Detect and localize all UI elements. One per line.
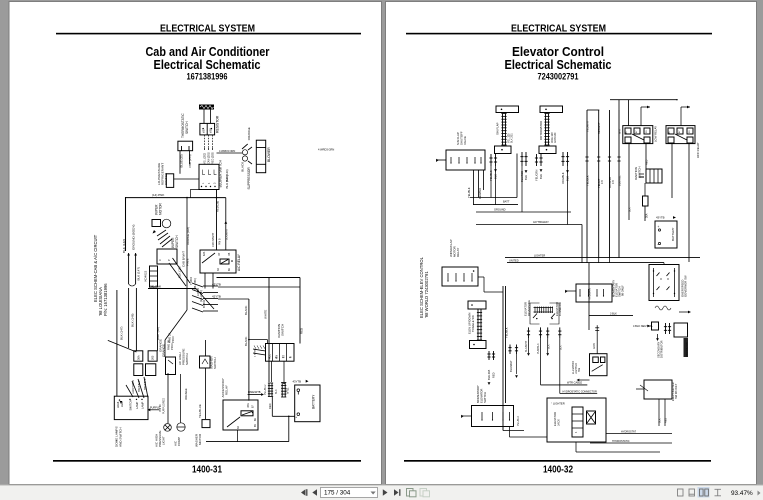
svg-text:BLK 201: BLK 201: [511, 133, 514, 143]
ground wire loop: [128, 253, 130, 284]
svg-text:PIN B: PIN B: [219, 238, 222, 245]
fuse component: [643, 196, 649, 206]
wires from momentary switch: [509, 427, 511, 438]
wire from speed box down: [575, 442, 577, 452]
wiper motor circle: [162, 219, 171, 228]
svg-text:RED: RED: [646, 160, 649, 165]
toolbar background: [0, 485, 763, 500]
wire horizontal united: [507, 262, 664, 264]
svg-text:BLACK: BLACK: [244, 305, 248, 315]
svg-text:LOW RELAY: LOW RELAY: [654, 126, 658, 142]
momentary elevator switch box left: [472, 406, 514, 427]
elevator switch 98 only component: [644, 380, 672, 399]
svg-text:RESISTOR: RESISTOR: [216, 115, 220, 133]
suppressor motor symbols: [242, 150, 247, 155]
svg-text:BLK: BLK: [547, 344, 550, 349]
ignition switch connector: [266, 344, 295, 362]
wiper switch box: [157, 249, 177, 264]
wire down from pressure switch: [167, 373, 169, 423]
svg-text:SW B/BLK: SW B/BLK: [138, 380, 141, 392]
svg-text:(3B) PNK: (3B) PNK: [149, 284, 161, 288]
battery box right: [655, 221, 677, 248]
svg-text:LAMP: LAMP: [141, 401, 145, 409]
wire from blower switch bottom left: [191, 190, 203, 198]
svg-text:SWITCH: SWITCH: [185, 353, 189, 365]
elevator lighter riser: [596, 325, 598, 354]
wire 42YTB to feed: [249, 298, 330, 300]
svg-text:MOTOR: MOTOR: [198, 433, 202, 445]
solenoid chain 1 connector bar: [502, 114, 504, 146]
svg-text:WHITE: WHITE: [264, 310, 268, 319]
chain 1 down arrow: [494, 169, 497, 172]
extra hydro wires: [547, 441, 576, 443]
svg-text:ORANGE (118): ORANGE (118): [186, 227, 190, 245]
svg-text:4 WRD3 ORN: 4 WRD3 ORN: [219, 149, 235, 153]
wire RED to battery: [271, 397, 273, 416]
ignition connector hatch wires: [253, 349, 266, 351]
svg-text:43YTB: 43YTB: [656, 216, 665, 220]
svg-text:YEL/BLK: YEL/BLK: [467, 187, 471, 198]
wire horizontal top right: [217, 277, 301, 279]
svg-text:LAMP B/BLK: LAMP B/BLK: [132, 380, 135, 394]
dome lamps box: [114, 396, 148, 419]
elevator lighter arrow: [579, 379, 590, 381]
resistor terminal box #37 #38: [200, 123, 215, 134]
svg-text:ORANGE: ORANGE: [247, 127, 251, 140]
svg-text:BATTERY: BATTERY: [312, 394, 316, 409]
svg-text:YEL/BLK: YEL/BLK: [517, 416, 520, 426]
wire junction diagonals: [196, 289, 214, 310]
bottom wires of left page: [288, 416, 290, 441]
left page sheet: [9, 2, 382, 485]
svg-text:YEL/GRN: YEL/GRN: [535, 169, 539, 181]
svg-text:BLK: BLK: [275, 389, 278, 394]
washer motor component: [202, 420, 210, 428]
svg-text:GROUND (BODY): GROUND (BODY): [132, 225, 136, 250]
svg-text:RED/WHT: RED/WHT: [598, 122, 601, 134]
toolbar right caret: [758, 491, 761, 496]
tall wire from chain area down: [516, 154, 518, 198]
elevator lighter switch box: [590, 354, 608, 376]
toolbar previous page button: [312, 489, 317, 496]
connector KD4022 box: [150, 266, 158, 287]
svg-text:43YTB: 43YTB: [293, 379, 302, 383]
svg-text:BATTERY: BATTERY: [671, 227, 675, 241]
left relay bracket: [530, 303, 540, 324]
relay drop wires: [628, 144, 630, 220]
svg-text:HYDROSTAT: HYDROSTAT: [621, 430, 637, 433]
svg-text:⌜ LIGHTER: ⌜ LIGHTER: [551, 402, 565, 406]
A/C relay box: [200, 250, 236, 273]
up arrow right relay: [681, 106, 690, 108]
svg-text:BLOWER: BLOWER: [267, 147, 271, 162]
wire horizontal 42YTB: [476, 224, 582, 226]
toolbar single page icon: [678, 489, 684, 496]
svg-text:ELEVATOR: ELEVATOR: [553, 412, 557, 426]
wire bus right mid: [588, 263, 590, 330]
svg-text:YEL/BLK: YEL/BLK: [505, 327, 509, 338]
toolbar fit page icon: [689, 489, 695, 496]
svg-text:BLK/YEL: BLK/YEL: [618, 175, 622, 186]
svg-text:PIN F: PIN F: [171, 336, 175, 343]
bus wires vertical: [586, 110, 588, 258]
svg-text:4 WRD3 GRN: 4 WRD3 GRN: [318, 147, 334, 151]
connector columns above battery wire: [268, 383, 270, 397]
svg-text:A/C RELAY: A/C RELAY: [237, 253, 241, 271]
svg-text:MOTOR: MOTOR: [159, 202, 163, 215]
secondary distributor box: [674, 323, 688, 337]
svg-text:98 ONLY: 98 ONLY: [621, 285, 625, 296]
svg-text:1 GRAY: 1 GRAY: [254, 349, 257, 357]
svg-text:SW 98 ONLY: SW 98 ONLY: [674, 383, 678, 399]
harness connector cluster: [192, 283, 203, 287]
svg-text:LAMP: LAMP: [135, 401, 139, 409]
svg-text:SW B/BLK: SW B/BLK: [144, 378, 147, 390]
operator presence switch box: [576, 284, 612, 302]
svg-text:RED: RED: [268, 403, 272, 409]
toolbar last page button: [394, 489, 399, 496]
svg-text:SWITCH: SWITCH: [483, 392, 487, 403]
svg-text:PIN E: PIN E: [186, 258, 190, 266]
switch ground arrow left: [461, 415, 472, 417]
svg-text:RED: RED: [492, 372, 496, 378]
secondary connector ticks: [665, 323, 667, 334]
lighter element: [587, 411, 596, 424]
svg-text:WHT: WHT: [619, 128, 622, 134]
elevator toggle bottom box: [470, 341, 487, 349]
svg-text:1400-32: 1400-32: [543, 464, 573, 475]
chain drops to horizontals: [490, 166, 492, 198]
wire bottom run left page: [108, 340, 137, 352]
wiper motor arrow: [152, 230, 156, 234]
hydrostatic connector wire: [560, 393, 597, 395]
wires below resistor box: [204, 135, 206, 148]
svg-text:BLK (142): BLK (142): [122, 239, 126, 253]
wire horizontal ground: [476, 211, 571, 213]
A/C comp wire: [180, 374, 182, 423]
lamp resistor boxes: [134, 351, 143, 361]
accessory relay box: [223, 400, 258, 430]
svg-text:YEL/BLK: YEL/BLK: [586, 175, 590, 186]
svg-text:(14) PNK: (14) PNK: [152, 193, 164, 197]
svg-text:RESTRICTOR: RESTRICTOR: [686, 342, 688, 357]
right relay bracket: [550, 303, 560, 324]
svg-text:BLK 41B: BLK 41B: [487, 369, 491, 380]
svg-text:Electrical Schematic: Electrical Schematic: [505, 57, 612, 72]
toolbar first page button: [301, 489, 306, 496]
battery box: [295, 385, 320, 422]
wires below AC relay: [204, 273, 206, 289]
operator presence ground arrow: [565, 290, 576, 292]
lime/white arrow wire: [248, 394, 262, 396]
wire vertical main left: [125, 197, 127, 251]
svg-text:7243002791: 7243002791: [538, 71, 579, 81]
svg-text:SW: SW: [578, 367, 581, 372]
wire 43YTB run: [218, 286, 300, 288]
resistor block: [199, 105, 214, 110]
svg-text:BLK (146): BLK (146): [225, 169, 229, 182]
wire BLK/WHT riser to relay: [225, 198, 227, 250]
toolbar fit width icon: [715, 489, 722, 496]
wire horizontal lighter: [505, 257, 700, 259]
overspeed governor switch box: [649, 265, 679, 301]
svg-text:RED (283): RED (283): [212, 152, 215, 164]
svg-text:BLACK: BLACK: [241, 162, 245, 172]
bottom horizontal wires right page: [606, 433, 672, 435]
svg-text:1671381996: 1671381996: [187, 71, 228, 81]
right page sheet: [386, 2, 757, 485]
svg-text:SWITCH: SWITCH: [175, 235, 179, 248]
svg-text:SWITCH: SWITCH: [185, 121, 189, 134]
ignition switch connector right: [646, 169, 662, 183]
middle connector ticks: [509, 345, 511, 355]
relay drop wires with arrows: [528, 338, 530, 353]
svg-text:PUR/BLK: PUR/BLK: [537, 343, 540, 354]
A/C high pressure light lamp: [164, 424, 172, 432]
ignition battery symbol: [639, 173, 644, 175]
resistor leads: [203, 110, 205, 124]
wire RED 28 from blower switch to relay: [216, 190, 218, 251]
svg-text:Electrical Schematic: Electrical Schematic: [154, 57, 261, 72]
svg-text:GROUND: GROUND: [494, 208, 506, 212]
dome ground arrow: [120, 401, 123, 404]
right header underline: [406, 33, 712, 35]
svg-text:JACK: JACK: [557, 419, 561, 426]
svg-text:IGN: IGN: [276, 354, 279, 359]
svg-text:BLACK: BLACK: [244, 336, 248, 346]
svg-text:BLOWER SWITCH: BLOWER SWITCH: [219, 159, 223, 187]
svg-text:Y RD4: Y RD4: [189, 277, 193, 285]
wires from ignition connector down: [270, 361, 272, 382]
svg-text:93.47%: 93.47%: [731, 490, 753, 497]
svg-text:WT11: WT11: [287, 387, 290, 394]
svg-text:4 BLK NEUTRAL: 4 BLK NEUTRAL: [633, 324, 653, 328]
svg-text:30A: 30A: [646, 213, 649, 218]
svg-text:YEL (282): YEL (282): [204, 153, 207, 164]
wire vertical BLK 148: [128, 288, 130, 348]
bus top bend: [587, 109, 599, 111]
toolbar next page button: [383, 489, 388, 496]
wire vertical BLK 147: [116, 290, 118, 396]
blower switch box: [199, 164, 219, 189]
washer wires: [205, 340, 207, 356]
solenoid chain 2 bottom box: [539, 146, 556, 154]
svg-text:+: +: [658, 225, 660, 229]
svg-text:+: +: [295, 415, 297, 419]
svg-text:S/N FLAP: S/N FLAP: [496, 122, 500, 135]
governor right arrow: [679, 311, 689, 313]
svg-text:ACC RELAY: ACC RELAY: [696, 142, 700, 158]
svg-text:CAN (281): CAN (281): [208, 152, 211, 164]
wire from lo-pressure switch: [174, 178, 199, 180]
svg-text:P/N: 1671381996: P/N: 1671381996: [103, 283, 108, 316]
battery plus terminal: [297, 413, 300, 416]
svg-text:265: 265: [151, 355, 155, 360]
svg-text:CRD B/WHT: CRD B/WHT: [212, 232, 215, 247]
svg-text:GRN: GRN: [593, 343, 596, 349]
wiper flap motor box: [442, 267, 478, 286]
svg-text:YEL/WHT: YEL/WHT: [587, 120, 590, 132]
relay wire to hydrostatic: [559, 338, 561, 393]
wiper motor body box: [152, 220, 161, 227]
svg-text:87A: 87A: [247, 403, 250, 408]
svg-text:ORG/BLK: ORG/BLK: [561, 172, 565, 184]
svg-text:42YTB/GRAY: 42YTB/GRAY: [533, 220, 549, 224]
svg-text:BLK: BLK: [539, 174, 543, 179]
svg-text:87A: 87A: [203, 251, 206, 256]
wire PNK 3B horizontal: [148, 288, 196, 290]
bus top horizontal wire: [610, 99, 677, 101]
svg-text:HYD/GRN: HYD/GRN: [589, 288, 592, 300]
elevator speed control squares: [572, 407, 583, 437]
wiper switch hatch wires: [157, 230, 166, 236]
svg-text:BLK: BLK: [524, 175, 528, 180]
svg-text:RELAY: RELAY: [456, 248, 460, 257]
chain 1 lower connector ticks: [490, 154, 492, 166]
svg-text:BLU/WHT: BLU/WHT: [509, 360, 513, 372]
svg-text:ORANGE: ORANGE: [184, 388, 188, 400]
svg-text:C: C: [158, 259, 162, 261]
wtr cable wire: [541, 384, 588, 386]
svg-text:WHT (52): WHT (52): [156, 327, 160, 340]
svg-text:4 B: 4 B: [601, 180, 604, 184]
svg-text:SWITCH: SWITCH: [129, 400, 133, 411]
solenoid chain 1 top box: [496, 106, 519, 113]
restrictor label box: [684, 338, 689, 357]
solenoid chain 2 connector bar: [545, 114, 547, 146]
svg-text:1400-31: 1400-31: [192, 464, 222, 475]
wire right page bottom bus: [505, 403, 507, 431]
lo-pressure switch box: [166, 174, 173, 188]
toolbar previous view icon: [407, 489, 414, 497]
battery minus terminal: [297, 389, 300, 392]
svg-text:175 / 304: 175 / 304: [324, 490, 351, 497]
relay tick connectors: [528, 327, 530, 338]
svg-text:BLK (148): BLK (148): [131, 313, 135, 327]
svg-text:4 B: 4 B: [612, 180, 615, 184]
LOW relay box: [623, 126, 653, 144]
purple arrow wire: [149, 409, 159, 411]
battery plus wire: [272, 415, 294, 417]
wire 42YTB run: [218, 298, 249, 300]
svg-text:HYDROSTATIC: HYDROSTATIC: [612, 440, 630, 443]
wires from motor box: [478, 276, 484, 278]
connector ticks row: [521, 152, 523, 166]
svg-text:LIME/WTB: LIME/WTB: [248, 390, 261, 394]
svg-text:RED: RED: [665, 418, 668, 423]
diagonal wires to dome lamp switch: [126, 385, 133, 397]
svg-text:BLK (147): BLK (147): [120, 326, 124, 340]
svg-text:AND SWITCH: AND SWITCH: [119, 427, 123, 447]
relay coil connector bar: [534, 307, 554, 309]
svg-text:32A6: 32A6: [116, 401, 120, 408]
svg-text:SWITCH: SWITCH: [213, 358, 217, 369]
svg-text:LIGHT: LIGHT: [162, 436, 166, 445]
main bus double vertical: [502, 286, 504, 431]
right bus continuation: [586, 258, 588, 263]
svg-text:'98 WORLD 7243002791: '98 WORLD 7243002791: [424, 271, 429, 318]
wire diagonals from wiper switch: [173, 258, 191, 283]
svg-text:COMP: COMP: [177, 437, 181, 446]
svg-text:SUPPRESSOR: SUPPRESSOR: [247, 167, 251, 190]
wire right chain to bus: [546, 154, 548, 167]
wire orange drop from PNK: [186, 197, 188, 199]
svg-text:BLK (147): BLK (147): [137, 267, 141, 281]
svg-text:3 BLK: 3 BLK: [610, 312, 617, 315]
svg-text:SWITCH: SWITCH: [281, 324, 285, 336]
svg-text:BLK: BLK: [629, 207, 632, 212]
svg-text:BLK/WHT: BLK/WHT: [525, 340, 528, 352]
relay wire to wtr cable: [540, 338, 542, 385]
svg-text:42YTB: 42YTB: [212, 295, 221, 299]
svg-text:TOGGLE SW: TOGGLE SW: [471, 315, 475, 332]
bus connector ticks: [585, 156, 588, 158]
shutoff valve box: [446, 150, 485, 170]
svg-text:ROTORVATOR: ROTORVATOR: [539, 121, 543, 140]
svg-text:VALVE: VALVE: [463, 136, 467, 145]
svg-text:WTR CABLE: WTR CABLE: [567, 381, 582, 385]
svg-text:BLK: BLK: [560, 345, 563, 350]
elevator toggle connector bar: [477, 309, 479, 340]
svg-text:BATT: BATT: [503, 200, 510, 204]
wire (14) PNK horizontal: [126, 197, 226, 199]
toggle lower ticks: [488, 351, 490, 360]
svg-text:ACC: ACC: [269, 354, 272, 359]
svg-text:B RD4: B RD4: [202, 300, 206, 308]
svg-text:YEL/BLUE: YEL/BLUE: [198, 404, 202, 418]
svg-text:LIGHTER: LIGHTER: [534, 253, 545, 257]
governor squiggle: [655, 306, 671, 310]
washer switch box: [200, 356, 211, 368]
svg-text:DISTRIBUTOR: DISTRIBUTOR: [660, 340, 664, 358]
svg-text:RELAY: RELAY: [225, 385, 229, 395]
svg-text:RED: RED: [300, 328, 304, 334]
wire horizontal batt: [470, 197, 517, 199]
blower connector box: [256, 140, 265, 173]
left header underline: [56, 33, 361, 35]
svg-text:BLK: BLK: [659, 418, 662, 423]
right page footer line: [404, 460, 711, 462]
svg-text:BLK (18): BLK (18): [178, 267, 182, 278]
svg-text:KD4022: KD4022: [144, 270, 148, 281]
svg-text:SWITCH: SWITCH: [638, 167, 642, 178]
svg-text:GRN 130: GRN 130: [554, 132, 557, 143]
distributor down arrow: [657, 334, 659, 339]
neutral component: [652, 322, 659, 330]
toolbar page number field: [321, 488, 378, 498]
wires from shutoff valve down: [478, 170, 480, 198]
junction boxes below lamps: [134, 364, 143, 376]
wire vertical white run: [268, 278, 270, 383]
wire to blower with label WRD3 ORN: [217, 152, 243, 154]
row down arrows: [525, 170, 528, 173]
ignition feed wire: [248, 299, 250, 401]
chain 2 down arrow: [540, 169, 543, 172]
svg-text:BLK/WHT: BLK/WHT: [226, 228, 229, 240]
solenoid chain 1 bottom box: [495, 146, 512, 154]
chain 2 lower connector ticks: [536, 154, 538, 166]
A/C comp symbol: [177, 423, 185, 431]
svg-text:36A: 36A: [137, 355, 141, 360]
solenoid chain 2 top box: [540, 106, 563, 113]
svg-text:PURPLE: PURPLE: [150, 407, 160, 410]
wires below elev lighter switch: [658, 399, 660, 426]
elevator toggle switch top box: [468, 301, 486, 309]
elevator jack box: [547, 398, 606, 442]
wire 43YTB to red riser: [300, 286, 340, 288]
svg-text:HYDROSTATIC CONNECTOR: HYDROSTATIC CONNECTOR: [563, 390, 598, 393]
left page footer line: [53, 460, 361, 462]
